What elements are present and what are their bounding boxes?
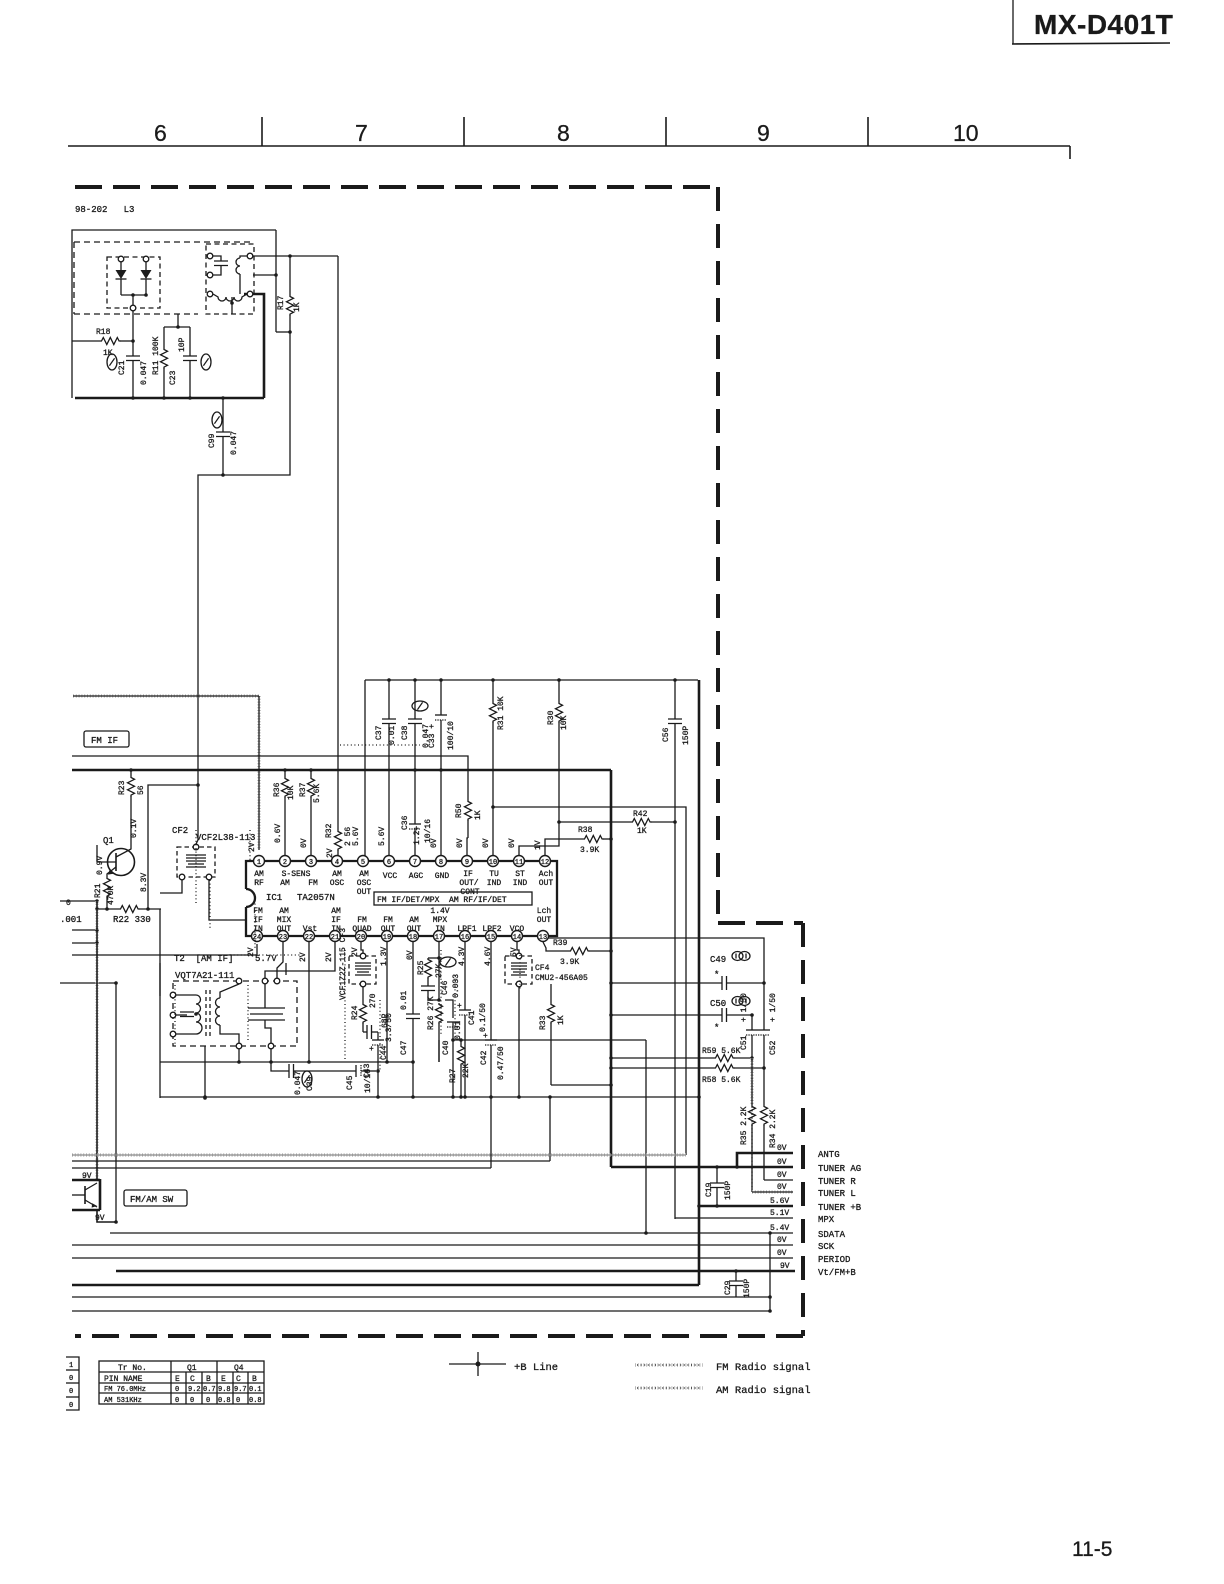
svg-text:AM: AM [332, 870, 342, 879]
svg-text:TU: TU [489, 870, 499, 879]
svg-text:+ 1/50: + 1/50 [740, 993, 749, 1022]
svg-text:IF: IF [253, 916, 263, 925]
svg-text:19: 19 [383, 934, 391, 942]
svg-text:C33 +: C33 + [428, 724, 437, 748]
svg-text:0: 0 [69, 1402, 73, 1410]
svg-text:R23: R23 [118, 780, 127, 795]
pin 20 [356, 931, 367, 942]
svg-text:R38: R38 [578, 826, 593, 835]
pin 7 [410, 856, 421, 867]
svg-text:Vt/FM+B: Vt/FM+B [818, 1268, 856, 1278]
svg-text:IND: IND [487, 879, 502, 888]
svg-text:MIX: MIX [277, 916, 292, 925]
svg-text:CF2: CF2 [172, 826, 188, 836]
svg-text:FM: FM [308, 879, 318, 888]
svg-text:C40: C40 [442, 1040, 451, 1055]
svg-text:11-5: 11-5 [1072, 1538, 1112, 1561]
svg-text:R18: R18 [96, 328, 111, 337]
capacitor C21 0.047 [107, 341, 149, 400]
capacitor C52 +1/50 electrolytic [758, 983, 778, 1068]
svg-text:C47: C47 [400, 1040, 409, 1055]
top pin name labels [254, 870, 553, 897]
wire ground bus thick [75, 397, 264, 400]
svg-text:0.8: 0.8 [249, 1397, 262, 1405]
terminal TUNER AG [611, 1158, 861, 1174]
svg-text:0: 0 [190, 1397, 194, 1405]
terminal PERIOD [72, 1249, 850, 1265]
ceramic filter CF2 [172, 788, 255, 880]
svg-text:Q1: Q1 [187, 1364, 197, 1373]
svg-text:CF4: CF4 [535, 964, 550, 973]
resistor R38 3.9K [545, 826, 613, 855]
svg-text:8: 8 [557, 120, 570, 146]
wire pin24 line to left [72, 944, 257, 955]
svg-text:1K: 1K [637, 827, 647, 836]
pin 22 [304, 931, 315, 942]
svg-text:AM: AM [331, 907, 341, 916]
wire thick bus y1285 [72, 1284, 699, 1287]
varactor D2 [141, 256, 152, 295]
resonator [248, 1008, 285, 1020]
svg-text:R24: R24 [351, 1005, 360, 1020]
svg-text:3.9K: 3.9K [580, 846, 599, 855]
svg-text:C29: C29 [724, 1280, 733, 1295]
resistor R26 27K [427, 996, 443, 1062]
ceramic filter CF3 [339, 928, 376, 1000]
svg-text:IN: IN [435, 925, 445, 934]
capacitor C99 0.047 [208, 396, 239, 477]
svg-text:C56: C56 [662, 727, 671, 742]
wire pin17 node [438, 942, 440, 1000]
node diode tap [132, 295, 134, 305]
svg-text:1V: 1V [534, 840, 543, 850]
pin 10 [488, 856, 499, 867]
svg-text:150P: 150P [682, 726, 691, 745]
svg-text:5: 5 [361, 859, 365, 867]
svg-text:Q1: Q1 [103, 836, 114, 846]
svg-text:5.4V: 5.4V [770, 1224, 789, 1233]
title box MX-D401T [1012, 0, 1173, 44]
resistor R35 2.2K [740, 1058, 756, 1192]
wire box right riser [275, 230, 277, 332]
capacitor C45 10/16 electrolytic [346, 1065, 376, 1093]
terminal TUNER R [764, 1171, 856, 1187]
svg-text:0.01: 0.01 [388, 726, 397, 745]
svg-text:IF: IF [331, 916, 341, 925]
svg-text:R59 5.6K: R59 5.6K [702, 1047, 741, 1056]
svg-text:4: 4 [335, 859, 339, 867]
svg-text:+: + [369, 1045, 374, 1054]
resistor R33 1K [539, 984, 566, 1085]
svg-text:R35 2.2K: R35 2.2K [740, 1106, 749, 1145]
svg-text:FM: FM [357, 916, 367, 925]
terminal SDATA [110, 1224, 846, 1240]
svg-text:Tr No.: Tr No. [118, 1364, 147, 1373]
pin 1 [254, 856, 265, 867]
svg-text:LPF2: LPF2 [482, 925, 501, 934]
svg-text:0V: 0V [777, 1183, 787, 1192]
svg-text:OSC: OSC [330, 879, 345, 888]
svg-text:0V: 0V [777, 1171, 787, 1180]
svg-text:Ach: Ach [539, 870, 554, 879]
svg-text:S-SENS: S-SENS [282, 870, 311, 879]
svg-text:R11 100K: R11 100K [152, 336, 161, 375]
svg-text:150P: 150P [724, 1181, 733, 1200]
svg-text:FM/AM SW: FM/AM SW [130, 1195, 174, 1205]
svg-text:9V: 9V [780, 1262, 790, 1271]
svg-text:VQT7A21-111: VQT7A21-111 [175, 971, 234, 981]
capacitor C29 150P [724, 1269, 752, 1298]
svg-text:1.2+: 1.2+ [413, 826, 422, 845]
wire pin19 down [386, 942, 388, 1062]
wire pin10 branch y807 [493, 807, 686, 1155]
svg-text:AM: AM [280, 879, 290, 888]
svg-text:C52: C52 [769, 1040, 778, 1055]
FM/AM SW label box [124, 1190, 187, 1206]
svg-text:OUT: OUT [537, 916, 552, 925]
pin 9 [462, 856, 473, 867]
wire left risers [95, 901, 99, 1180]
pin 15 [486, 931, 497, 942]
capacitor C50 [609, 997, 754, 1034]
svg-text:R21: R21 [94, 883, 103, 898]
svg-text:TUNER L: TUNER L [818, 1189, 856, 1199]
resistor R39 3.9K [543, 939, 613, 967]
svg-text:0V: 0V [482, 838, 491, 848]
pin 14 [512, 931, 523, 942]
resistor R22 330 [95, 906, 161, 926]
wire pin8 gnd [440, 770, 442, 856]
capacitor C47 0.01 [400, 942, 420, 1097]
svg-text:LPF1: LPF1 [457, 925, 476, 934]
svg-text:PIN NAME: PIN NAME [104, 1375, 143, 1384]
resistor R59 5.6K [609, 1047, 754, 1062]
svg-text:3: 3 [309, 859, 313, 867]
svg-text:TUNER R: TUNER R [818, 1177, 856, 1187]
svg-text:2: 2 [283, 859, 287, 867]
svg-text:R30: R30 [547, 710, 556, 725]
pin 18 [408, 931, 419, 942]
svg-text:E: E [221, 1375, 226, 1384]
svg-text:Lch: Lch [537, 907, 552, 916]
pin 6 [384, 856, 395, 867]
svg-text:7: 7 [413, 859, 417, 867]
svg-text:R42: R42 [633, 810, 648, 819]
svg-text:C49: C49 [710, 955, 726, 965]
wire gnd rail y1085 [551, 1084, 611, 1086]
resistor R34 2.2K [761, 1068, 779, 1180]
+B Line legend [449, 1352, 558, 1376]
wire R17 down to FM IF join [223, 332, 290, 475]
wire vertical x646 SDATA feed [645, 1040, 647, 1233]
capacitor C23 10P [169, 327, 211, 400]
svg-text:VCF2L38-113: VCF2L38-113 [196, 833, 255, 843]
svg-text:SCK: SCK [818, 1242, 835, 1252]
coil winding bottom [213, 277, 247, 314]
outer dashed border [75, 187, 803, 1336]
svg-text:9: 9 [465, 859, 469, 867]
wire T2 bottoms [204, 1046, 206, 1098]
terminal MPX [675, 1209, 835, 1225]
pin 5 [358, 856, 369, 867]
wire diode join [121, 294, 146, 296]
wire under-T2 rail [160, 1061, 413, 1063]
capacitor C49 [609, 952, 766, 991]
pin 13 [538, 931, 549, 942]
svg-text:IC1: IC1 [266, 893, 282, 903]
svg-text:150P: 150P [743, 1279, 752, 1298]
svg-text:TUNER AG: TUNER AG [818, 1164, 861, 1174]
svg-text:AGC: AGC [409, 872, 424, 881]
resistor R58 5.6K [609, 1065, 766, 1086]
svg-text:9: 9 [757, 120, 770, 146]
FM IF label box [84, 731, 129, 747]
svg-text:10: 10 [489, 859, 497, 867]
svg-text:FM Radio signal: FM Radio signal [716, 1362, 811, 1374]
svg-text:23: 23 [279, 934, 287, 942]
svg-text:R39: R39 [553, 939, 568, 948]
svg-text:Q4: Q4 [234, 1364, 244, 1373]
resistor R32 56 [325, 823, 353, 856]
bottom pin voltage labels [247, 947, 519, 966]
svg-text:TA2057N: TA2057N [297, 893, 335, 903]
svg-text:1: 1 [69, 1362, 73, 1370]
wire pin21 to T2 [265, 942, 335, 978]
wire thick bus down right [610, 770, 613, 1167]
svg-text:0.1: 0.1 [249, 1386, 262, 1394]
svg-text:AM: AM [359, 870, 369, 879]
svg-text:R34 2.2K: R34 2.2K [769, 1109, 778, 1148]
svg-text:0.6V: 0.6V [274, 824, 283, 843]
voltage table [99, 1361, 264, 1405]
transistor Q1 [96, 819, 149, 892]
svg-text:2V: 2V [325, 952, 334, 962]
varactor D1 [116, 256, 127, 295]
svg-text:C36: C36 [401, 815, 410, 830]
svg-text:6: 6 [387, 859, 391, 867]
svg-text:18: 18 [409, 934, 417, 942]
svg-text:PERIOD: PERIOD [818, 1255, 850, 1265]
primary coil [176, 995, 196, 1034]
svg-text:VCC: VCC [383, 872, 398, 881]
svg-text:5.1V: 5.1V [770, 1209, 789, 1218]
pin 3 [306, 856, 317, 867]
svg-text:5.6V: 5.6V [770, 1197, 789, 1206]
wire osc second [253, 274, 276, 276]
transistor Q4 FM/AM SW [72, 1172, 105, 1223]
svg-text:C99: C99 [208, 433, 217, 448]
svg-text:*: * [714, 1023, 719, 1033]
svg-text:0V: 0V [777, 1249, 787, 1258]
svg-text:ST: ST [515, 870, 525, 879]
wire +B top rail y680 [365, 679, 698, 681]
svg-text:0: 0 [175, 1386, 179, 1394]
svg-text:12: 12 [541, 859, 549, 867]
wire osc to pin4 long vertical [337, 256, 339, 830]
wire base stub [97, 861, 98, 863]
svg-text:2V: 2V [248, 842, 257, 852]
svg-text:470K: 470K [107, 886, 116, 905]
resistor R18 1K [72, 328, 135, 358]
wire Lch to C49/C52 [548, 938, 764, 983]
svg-text:FM 76.0MHz: FM 76.0MHz [104, 1386, 146, 1394]
wire FM IF feed down-left [198, 475, 223, 788]
svg-text:24: 24 [253, 934, 261, 942]
svg-text:10P: 10P [178, 337, 187, 352]
svg-text:0.1V: 0.1V [130, 819, 139, 838]
svg-text:13: 13 [539, 934, 547, 942]
wire gnd rail y1097 [160, 1096, 699, 1098]
svg-text:OUT: OUT [357, 888, 372, 897]
svg-text:AM: AM [254, 870, 264, 879]
svg-text:14: 14 [513, 934, 521, 942]
wire pin23 to T2 [277, 942, 283, 978]
bottom pin name labels [253, 907, 551, 934]
svg-text:C51: C51 [740, 1035, 749, 1050]
wire top box outline [72, 230, 276, 398]
svg-text:0.047: 0.047 [140, 361, 149, 385]
svg-text:0.01: 0.01 [400, 991, 409, 1010]
svg-text:*: * [714, 970, 719, 980]
coil cap [207, 253, 228, 297]
oscillator coil T dashed box [206, 244, 254, 314]
terminal TUNER L [752, 1183, 856, 1199]
svg-text:R32: R32 [325, 823, 334, 838]
terminal TUNER +B [697, 1197, 862, 1213]
pin 11 [514, 856, 525, 867]
svg-text:CONT: CONT [460, 888, 479, 897]
resistor R31 10K [490, 678, 507, 856]
varactor diode pack dashed box [107, 257, 160, 308]
capacitor C19 150P [705, 1165, 733, 1208]
svg-text:1K: 1K [557, 1015, 566, 1025]
svg-text:C37: C37 [375, 725, 384, 740]
svg-text:9.2: 9.2 [188, 1386, 201, 1394]
svg-text:9.8: 9.8 [218, 1386, 231, 1394]
svg-text:CMU2-456A05: CMU2-456A05 [535, 974, 588, 983]
resistor R50 1K [455, 800, 483, 856]
capacitor C41 0.1/50 electrolytic [457, 942, 488, 1097]
svg-text:C19: C19 [705, 1182, 714, 1197]
capacitor C40 0.01 [439, 1000, 463, 1097]
svg-text:5.6K: 5.6K [313, 784, 322, 803]
svg-text:6: 6 [154, 120, 167, 146]
capacitor C51 +1/50 electrolytic [740, 993, 758, 1058]
capacitor C33 100/10 electrolytic [428, 678, 456, 772]
svg-text:0: 0 [206, 1397, 210, 1405]
svg-text:R37: R37 [299, 782, 308, 797]
svg-text:8: 8 [439, 859, 443, 867]
pin 19 [382, 931, 393, 942]
svg-text:+: + [457, 1002, 462, 1011]
svg-text:B: B [252, 1375, 257, 1384]
svg-text:270: 270 [369, 993, 378, 1008]
svg-text:IF: IF [463, 870, 473, 879]
terminal SCK [72, 1236, 835, 1252]
svg-text:+B Line: +B Line [514, 1362, 558, 1374]
resistor R11 100K [152, 327, 168, 400]
wire pin22 Vst down [308, 942, 310, 1062]
svg-text:R33: R33 [539, 1015, 548, 1030]
wire ST IND elbow [519, 822, 559, 856]
svg-text:R27: R27 [449, 1068, 458, 1083]
svg-text:0.8: 0.8 [218, 1397, 231, 1405]
svg-text:22K: 22K [462, 1063, 471, 1078]
svg-text:20: 20 [357, 934, 365, 942]
capacitor C37 0.01 [375, 678, 397, 856]
capacitor C43 3.3/50 electrolytic [363, 1013, 394, 1097]
pin 2 [280, 856, 291, 867]
capacitor C36 10/16 electrolytic [401, 770, 433, 856]
svg-text:2V: 2V [299, 952, 308, 962]
svg-text:C41: C41 [468, 1010, 477, 1025]
svg-text:R17: R17 [277, 295, 286, 310]
wire vertical x699 +B [698, 680, 701, 1285]
tuner pack dashed outline [74, 242, 250, 314]
svg-text:R25: R25 [417, 960, 426, 975]
resistor R17 1K [276, 254, 302, 334]
svg-text:C23: C23 [169, 370, 178, 385]
svg-text:AM: AM [279, 907, 289, 916]
svg-text:0: 0 [69, 1375, 73, 1383]
left margin terminal stubs [66, 1357, 79, 1410]
svg-text:E: E [175, 1375, 180, 1384]
wire Q4 emitter to bus [97, 1210, 116, 1222]
core [206, 990, 210, 1038]
pin 16 [460, 931, 471, 942]
svg-text:0V: 0V [430, 838, 439, 848]
svg-text:AM 531KHz: AM 531KHz [104, 1397, 142, 1405]
svg-text:1K: 1K [293, 302, 302, 312]
resistor R24 270 [351, 987, 378, 1032]
svg-text:OUT: OUT [407, 925, 422, 934]
wire line y1297 [72, 1296, 770, 1298]
svg-text:1: 1 [257, 859, 261, 867]
svg-text:VCF1Z2Z-115 CF3: VCF1Z2Z-115 CF3 [339, 928, 348, 1000]
svg-text:0.047: 0.047 [294, 1071, 303, 1095]
svg-text:OUT: OUT [381, 925, 396, 934]
svg-text:0.047: 0.047 [230, 431, 239, 455]
svg-text:10K: 10K [560, 715, 569, 730]
svg-text:C39: C39 [306, 1076, 315, 1091]
svg-text:2V: 2V [326, 848, 335, 858]
svg-text:T2 [AM IF]: T2 [AM IF] [174, 954, 233, 964]
ceramic filter CF4 [505, 942, 588, 987]
capacitor C39 0.047 [271, 1062, 356, 1095]
pin 17 [434, 931, 445, 942]
FM Radio signal legend [635, 1362, 811, 1374]
top pin voltage labels [248, 824, 543, 858]
svg-text:ANTG: ANTG [818, 1150, 840, 1160]
svg-text:R58 5.6K: R58 5.6K [702, 1076, 741, 1085]
svg-text:FM IF/DET/MPX AM RF/IF/DET: FM IF/DET/MPX AM RF/IF/DET [377, 896, 507, 905]
svg-text:3.9K: 3.9K [560, 958, 579, 967]
wire bus thick y770 [72, 769, 611, 772]
svg-text:C42: C42 [480, 1050, 489, 1065]
wire FM signal speckled line [73, 694, 259, 698]
svg-text:0.47/50: 0.47/50 [497, 1046, 506, 1080]
svg-text:10: 10 [953, 120, 979, 146]
svg-text:100/10: 100/10 [447, 721, 456, 750]
wire line y1161 [72, 1160, 550, 1162]
svg-text:21: 21 [331, 934, 339, 942]
svg-text:0.033: 0.033 [452, 974, 461, 998]
resistor R21 470K [94, 877, 116, 911]
svg-text:11: 11 [515, 859, 523, 867]
wire line y1040 [453, 1039, 646, 1041]
svg-text:16: 16 [461, 934, 469, 942]
capacitor C44 68P [363, 1013, 390, 1060]
